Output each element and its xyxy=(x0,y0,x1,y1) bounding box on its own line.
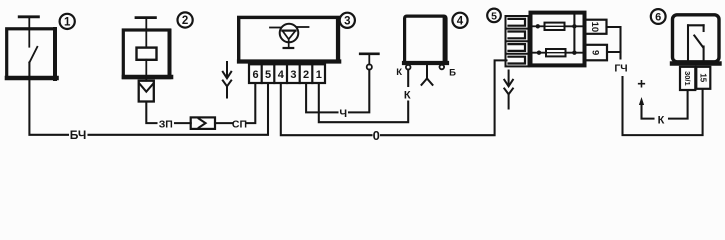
svg-text:К: К xyxy=(404,90,411,102)
svg-text:1: 1 xyxy=(316,69,322,81)
fuse F2 row xyxy=(531,49,584,56)
switch S1 box xyxy=(7,29,57,79)
wire coil to plug connector xyxy=(145,60,147,81)
node 4 callout circle xyxy=(452,13,467,28)
sensor unit (component 4) box xyxy=(404,16,447,63)
battery arrow head xyxy=(639,97,644,105)
pin row of unit 3 (pins 6..1) xyxy=(249,64,325,83)
svg-text:3: 3 xyxy=(344,16,350,28)
wire K: terminal 30/1 to battery plus xyxy=(642,90,688,119)
wire BCh: component 1 to pin 5 of unit 3 xyxy=(29,63,268,135)
svg-text:5: 5 xyxy=(265,69,271,81)
terminal box 10 xyxy=(584,20,606,34)
breaker terminal: circle and T-bar xyxy=(360,54,378,70)
svg-text:10: 10 xyxy=(589,22,600,33)
ignition coil (component 2) terminal T-bar xyxy=(136,18,155,48)
coil primary winding rect xyxy=(137,48,157,60)
node 2 callout circle xyxy=(178,12,193,27)
svg-text:К: К xyxy=(396,67,402,78)
svg-text:К: К xyxy=(658,115,665,127)
switch S1 (component 1) terminal T-bar xyxy=(19,17,38,47)
node 3 callout circle xyxy=(340,13,355,28)
svg-text:9: 9 xyxy=(589,50,600,55)
ignition switch (component 6) box xyxy=(672,15,720,64)
ignition coil box xyxy=(123,30,171,78)
svg-text:30/1: 30/1 xyxy=(683,71,692,86)
wire GCh: terminal 10 to ignition switch 15 xyxy=(607,27,703,135)
spark plug connector xyxy=(139,81,154,102)
wire Ch: pin 2 to breaker terminal xyxy=(306,70,369,113)
terminal box 30/1 xyxy=(680,67,695,90)
ground arrow under fuse block xyxy=(504,71,513,109)
svg-text:6: 6 xyxy=(252,69,258,81)
terminal box 15 xyxy=(696,67,710,89)
node 6 callout circle xyxy=(651,9,666,24)
transistor Q1 in circle xyxy=(270,24,309,48)
svg-text:СП: СП xyxy=(232,118,247,130)
svg-text:3: 3 xyxy=(290,69,296,81)
wire ZP: coil to inline connector xyxy=(146,102,190,124)
inline connector X1 xyxy=(191,117,215,128)
svg-text:БЧ: БЧ xyxy=(70,128,87,142)
svg-text:+: + xyxy=(637,77,645,93)
svg-text:ЗП: ЗП xyxy=(159,118,173,130)
svg-text:Б: Б xyxy=(449,68,456,79)
electronic unit (component 3) box xyxy=(239,17,340,61)
svg-text:15: 15 xyxy=(699,73,708,82)
wire SP: connector to pin 6 xyxy=(215,84,255,124)
wire K: pin 1 to sensor K terminal xyxy=(319,70,408,123)
node 5 callout circle xyxy=(487,9,501,23)
terminal B circle xyxy=(440,65,445,70)
node 1 callout circle xyxy=(60,14,75,29)
ignition switch inner contacts xyxy=(688,25,704,62)
svg-text:4: 4 xyxy=(457,16,464,28)
chassis ground under component 4 xyxy=(422,64,433,85)
svg-text:0: 0 xyxy=(373,128,380,143)
wire O: pin 4 down to fuse block 5 xyxy=(281,60,507,135)
svg-text:ГЧ: ГЧ xyxy=(614,63,627,75)
svg-text:5: 5 xyxy=(491,10,497,22)
svg-text:2: 2 xyxy=(182,15,188,27)
fuse block: left connector column xyxy=(506,16,529,66)
connector contact slots xyxy=(509,19,526,64)
svg-text:6: 6 xyxy=(655,12,661,24)
switch S1 blade xyxy=(29,47,37,63)
terminal box 9 xyxy=(584,45,607,61)
svg-text:Ч: Ч xyxy=(339,108,347,120)
bus joining fuse outputs xyxy=(573,15,575,53)
pin numbers 6 5 4 3 2 1 xyxy=(252,69,321,81)
terminal K circle xyxy=(406,65,411,70)
svg-text:2: 2 xyxy=(303,69,309,81)
fuse block: main box xyxy=(531,13,585,66)
svg-text:1: 1 xyxy=(64,17,71,29)
ground arrow near pin 6 xyxy=(223,62,231,98)
fuse F1 row xyxy=(531,23,584,30)
svg-text:4: 4 xyxy=(278,69,285,81)
